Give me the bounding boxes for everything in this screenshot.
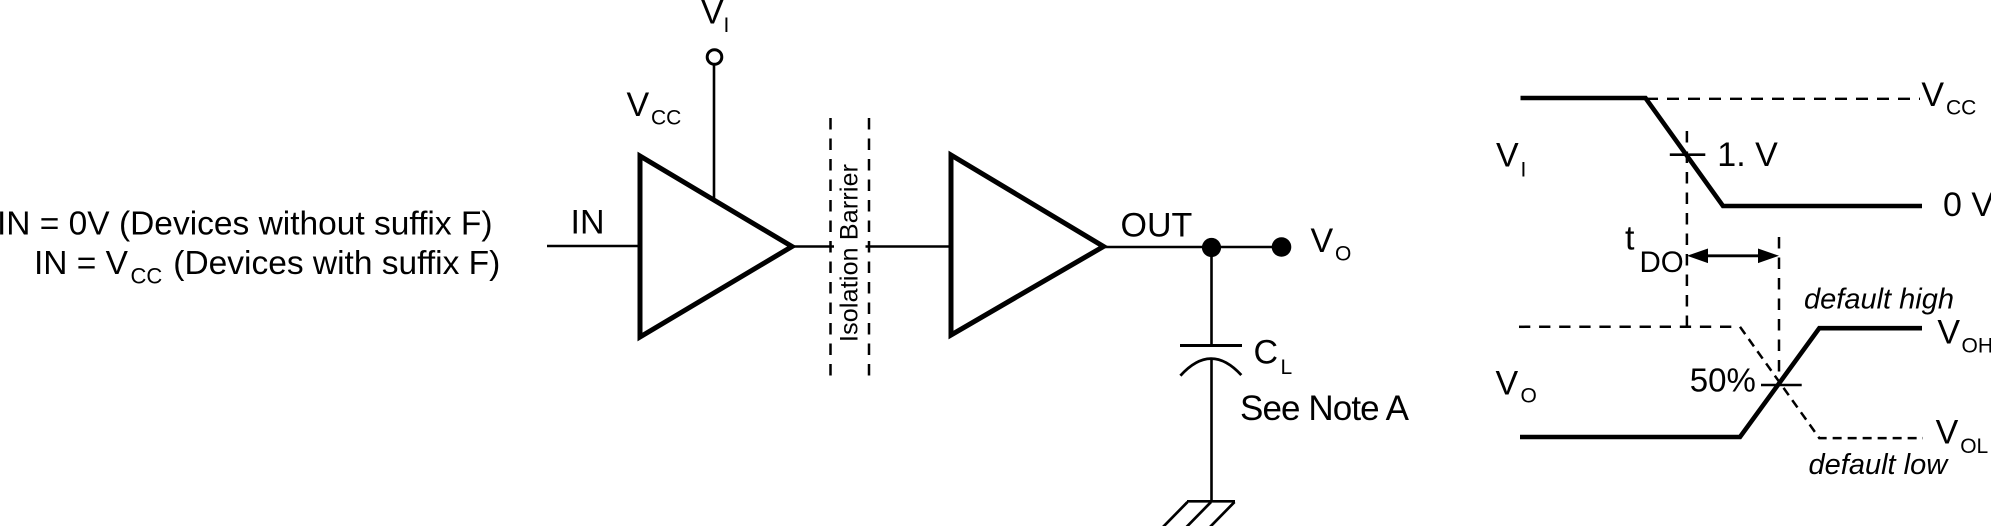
capacitor CL bottom plate bbox=[1180, 359, 1241, 376]
svg-text:OUT: OUT bbox=[1121, 207, 1193, 245]
svg-text:0 V: 0 V bbox=[1943, 186, 1991, 224]
dashed default low trace upper level bbox=[1519, 326, 1740, 329]
svg-text:L: L bbox=[1281, 356, 1293, 379]
dashed default low falling edge and low level bbox=[1740, 327, 1923, 438]
svg-text:CC: CC bbox=[1946, 97, 1976, 120]
svg-text:V: V bbox=[1937, 314, 1960, 352]
svg-text:V: V bbox=[1921, 76, 1944, 114]
supply stub VI bbox=[713, 64, 716, 199]
buffer U1 bbox=[640, 156, 792, 337]
buffer U2 bbox=[951, 155, 1104, 335]
dashed vertical right tDO bbox=[1778, 237, 1781, 385]
svg-text:See Note A: See Note A bbox=[1240, 389, 1410, 428]
output terminal dot VO bbox=[1272, 237, 1292, 257]
dashed VCC level bbox=[1646, 98, 1920, 100]
terminal circle VI bbox=[707, 50, 722, 65]
svg-text:DO: DO bbox=[1640, 246, 1684, 279]
dashed vertical left tDO bbox=[1686, 131, 1689, 327]
svg-text:IN: IN bbox=[571, 204, 605, 242]
svg-text:CC: CC bbox=[131, 264, 163, 289]
svg-text:V: V bbox=[1936, 414, 1959, 452]
svg-text:V: V bbox=[1496, 137, 1519, 175]
svg-text:O: O bbox=[1335, 243, 1351, 266]
svg-text:O: O bbox=[1521, 385, 1537, 408]
svg-text:V: V bbox=[1496, 365, 1519, 403]
arrow tDO bbox=[1687, 249, 1779, 264]
svg-text:Isolation Barrier: Isolation Barrier bbox=[836, 164, 864, 342]
wire capacitor to ground bbox=[1210, 358, 1213, 501]
svg-text:50%: 50% bbox=[1690, 362, 1756, 399]
tick 1.5V threshold bbox=[1670, 153, 1706, 156]
tick 50% crossing bbox=[1761, 384, 1802, 387]
svg-text:V: V bbox=[1311, 222, 1334, 260]
svg-text:1. V: 1. V bbox=[1717, 136, 1778, 174]
svg-text:(Devices with suffix F): (Devices with suffix F) bbox=[173, 245, 500, 282]
svg-text:I: I bbox=[1521, 159, 1527, 182]
svg-text:IN = 0V (Devices without suffi: IN = 0V (Devices without suffix F) bbox=[0, 206, 493, 243]
svg-text:V: V bbox=[701, 0, 724, 32]
svg-text:V: V bbox=[627, 86, 650, 124]
svg-text:I: I bbox=[724, 14, 730, 37]
wire buffer1 output bbox=[792, 245, 834, 248]
svg-text:OH: OH bbox=[1962, 335, 1991, 358]
svg-text:default high: default high bbox=[1804, 283, 1954, 315]
isolation barrier dashed line right bbox=[868, 118, 871, 379]
wire junction to capacitor bbox=[1210, 247, 1213, 344]
wire barrier to buffer2 bbox=[866, 245, 953, 248]
svg-text:OL: OL bbox=[1960, 435, 1988, 458]
waveform VO solid trace bbox=[1520, 328, 1922, 437]
isolation barrier dashed line left bbox=[829, 118, 832, 379]
capacitor CL top plate bbox=[1180, 344, 1242, 347]
svg-text:t: t bbox=[1625, 220, 1635, 258]
ground bbox=[1163, 501, 1235, 526]
svg-text:default low: default low bbox=[1809, 449, 1950, 481]
svg-text:CC: CC bbox=[651, 107, 681, 130]
junction dot bbox=[1202, 238, 1221, 257]
wire OUT bbox=[1104, 246, 1283, 249]
waveform VI trace bbox=[1521, 98, 1923, 206]
wire IN input bbox=[547, 245, 641, 248]
svg-text:C: C bbox=[1254, 334, 1279, 372]
svg-text:IN = V: IN = V bbox=[34, 245, 129, 282]
